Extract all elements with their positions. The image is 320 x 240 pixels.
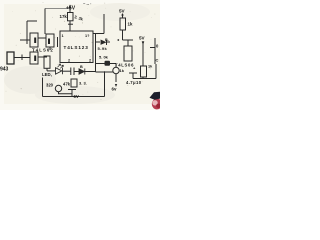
svg-text:3. 3.: 3. 3. [79, 81, 87, 86]
svg-text:6v: 6v [112, 87, 117, 92]
svg-text:T4LS62: T4LS62 [32, 48, 54, 53]
svg-text:1k: 1k [128, 22, 133, 27]
svg-text:+5V: +5V [66, 6, 76, 12]
svg-text:2: 2 [68, 59, 70, 63]
svg-text:943: 943 [0, 67, 9, 73]
svg-text:5V: 5V [139, 36, 146, 41]
svg-text:4.7μ10: 4.7μ10 [126, 80, 142, 85]
svg-text:T4LS123: T4LS123 [64, 45, 89, 50]
svg-text:17k: 17k [60, 14, 68, 19]
svg-text:320: 320 [46, 83, 54, 88]
svg-text:T4LS06: T4LS06 [115, 63, 134, 68]
svg-text:~ -- ·: ~ -- · [83, 1, 92, 6]
svg-text:1?: 1? [85, 34, 90, 38]
svg-text:C: C [156, 58, 159, 63]
svg-text:6V: 6V [74, 94, 79, 99]
svg-text:1k: 1k [120, 68, 125, 73]
svg-text:47k: 47k [63, 82, 71, 87]
svg-text:LED,: LED, [42, 72, 52, 77]
svg-text:1: 1 [62, 34, 64, 38]
svg-text:2: 2 [89, 59, 91, 63]
svg-text:5-9k: 5-9k [98, 46, 108, 51]
svg-text:B.: B. [105, 38, 109, 42]
svg-text:B: B [80, 65, 83, 69]
svg-text:5V: 5V [119, 9, 126, 14]
svg-text:5. 0k: 5. 0k [99, 55, 109, 60]
